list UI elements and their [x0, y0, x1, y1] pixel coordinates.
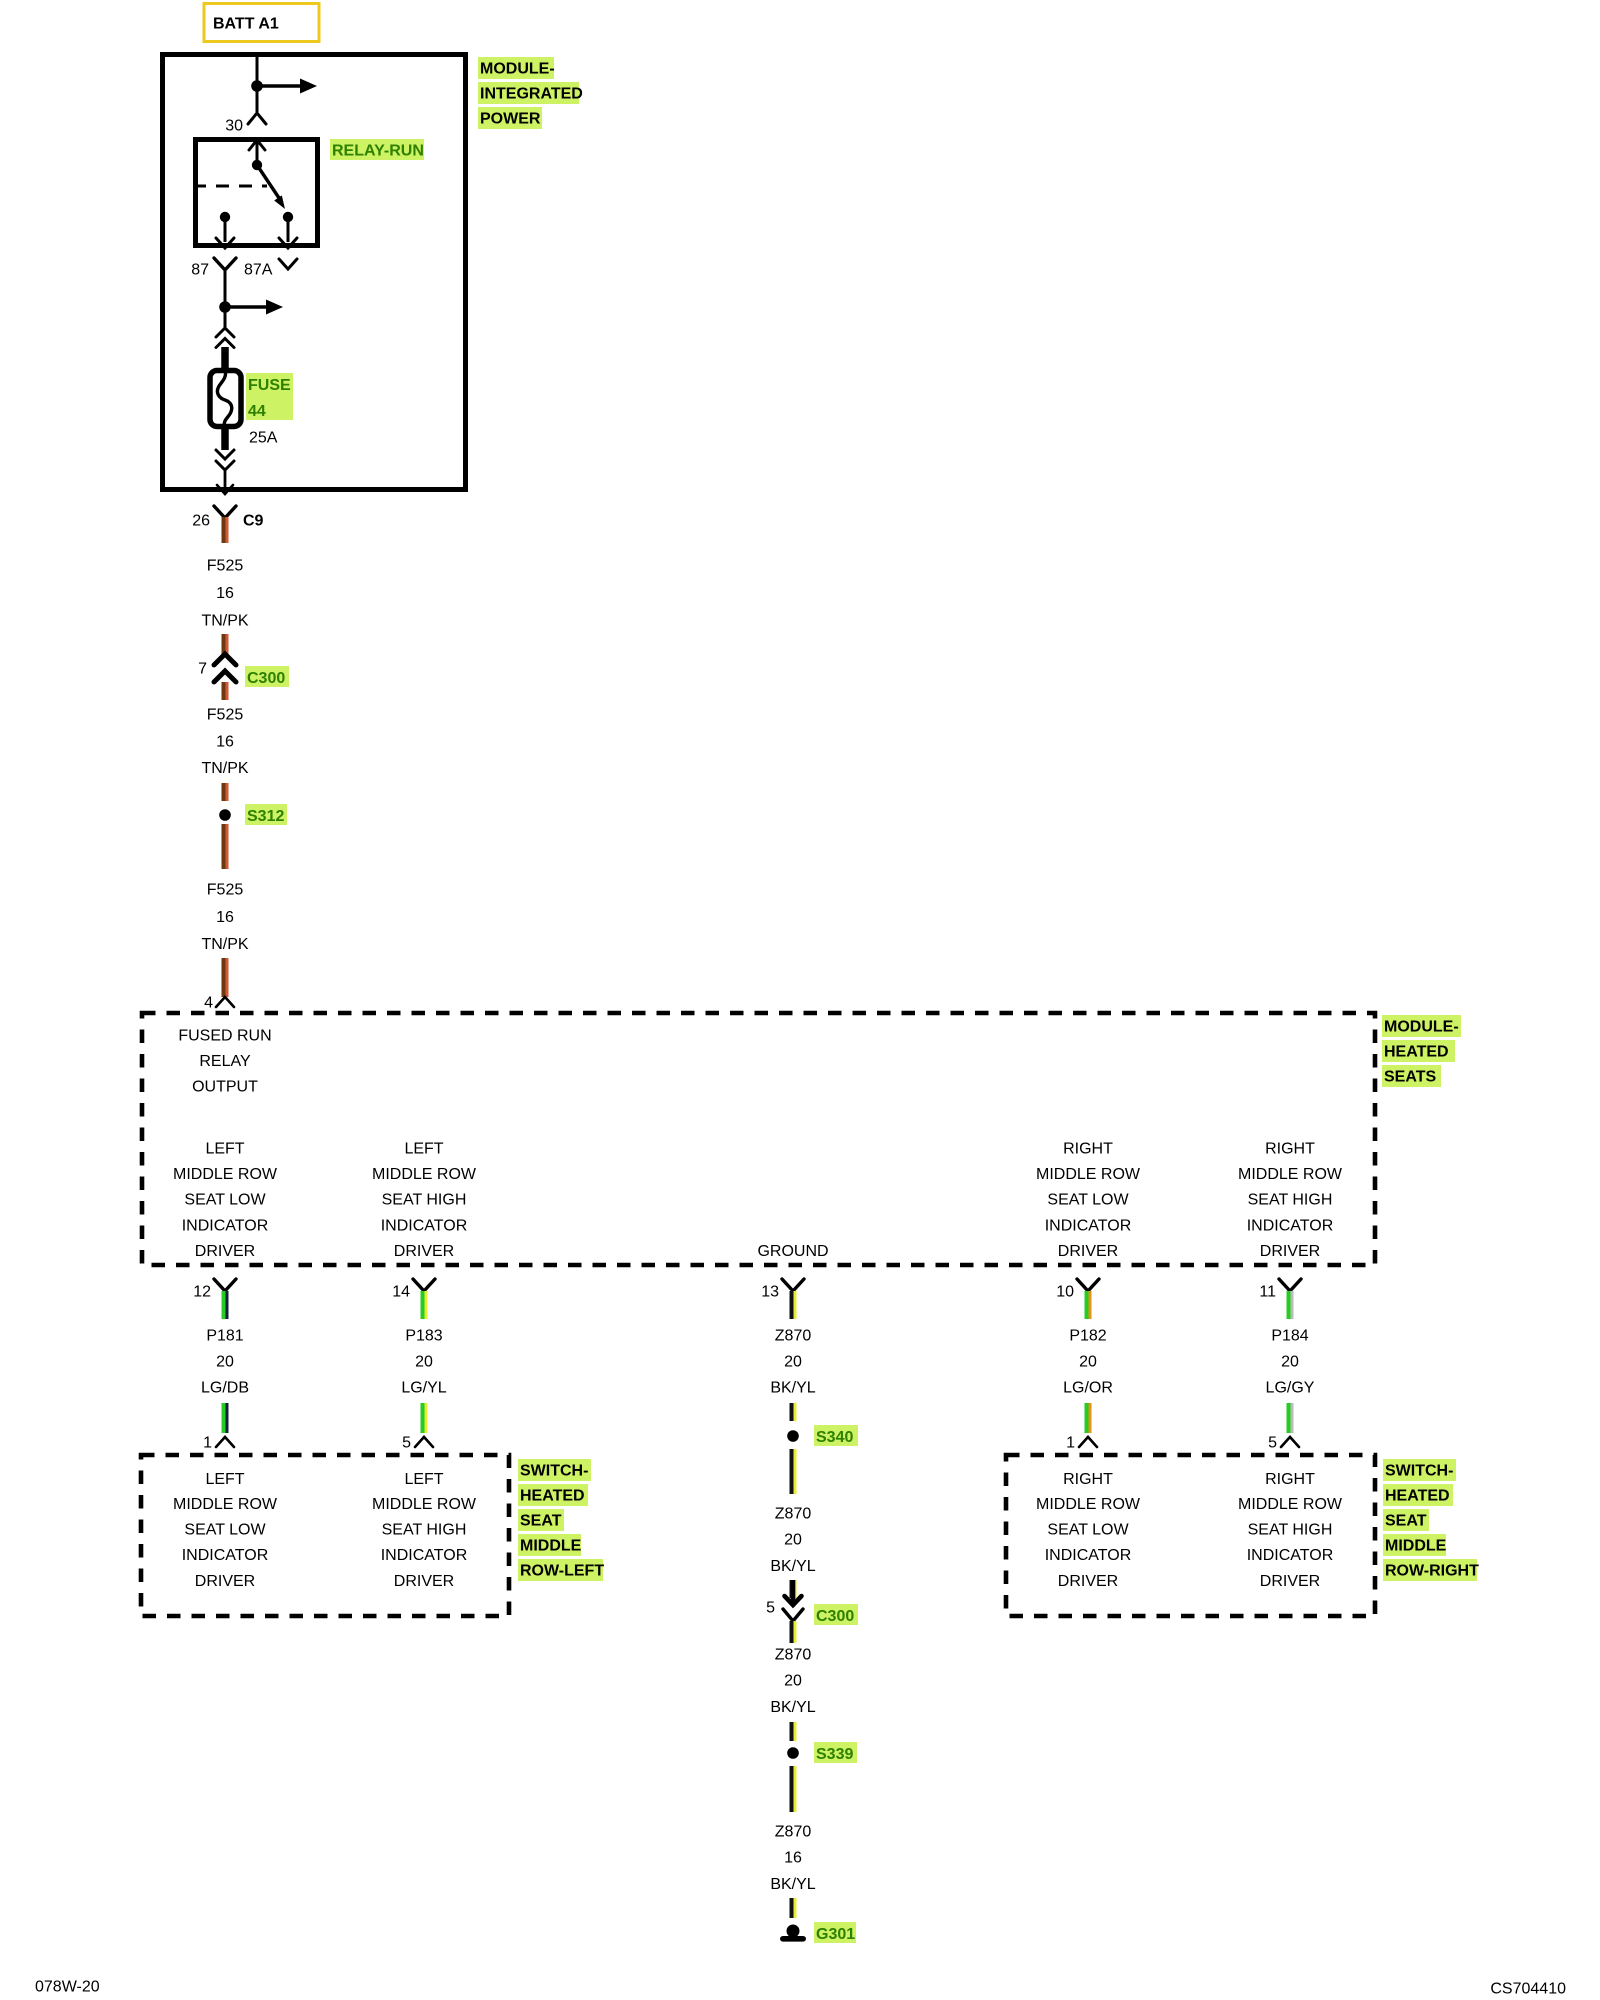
svg-text:20: 20 — [1079, 1354, 1097, 1371]
svg-text:12: 12 — [193, 1284, 211, 1301]
svg-text:13: 13 — [761, 1284, 779, 1301]
fuse output double chevron — [216, 450, 234, 470]
wire Z870 BK/YL segment above S339 — [790, 1722, 797, 1741]
svg-text:LG/GY: LG/GY — [1266, 1380, 1315, 1397]
svg-text:SEAT LOW: SEAT LOW — [1047, 1522, 1129, 1539]
svg-text:F525: F525 — [207, 707, 244, 724]
svg-text:SEAT LOW: SEAT LOW — [184, 1522, 266, 1539]
svg-text:FUSE: FUSE — [248, 377, 291, 394]
label G301 — [814, 1922, 856, 1943]
svg-text:TN/PK: TN/PK — [201, 760, 248, 777]
svg-text:GROUND: GROUND — [757, 1243, 828, 1260]
svg-text:RIGHT: RIGHT — [1063, 1141, 1113, 1158]
wire Z870 BK/YL segment to ground — [790, 1898, 797, 1918]
svg-text:SEAT HIGH: SEAT HIGH — [1248, 1192, 1333, 1209]
svg-text:C300: C300 — [247, 670, 285, 687]
connector pin 10 with wire P182 — [1056, 1279, 1099, 1319]
connector pin 11 with wire P184 — [1259, 1279, 1301, 1319]
connector C300 pin 5 male arrow — [785, 1580, 802, 1605]
svg-text:SEAT: SEAT — [1385, 1513, 1427, 1530]
svg-text:20: 20 — [216, 1354, 234, 1371]
svg-text:LEFT: LEFT — [205, 1471, 244, 1488]
wire down to relay pin 30 — [256, 86, 259, 112]
svg-text:FUSED RUN: FUSED RUN — [178, 1028, 271, 1045]
switch-heated seat middle row-left dashed box — [141, 1455, 509, 1616]
svg-text:MIDDLE: MIDDLE — [1385, 1538, 1447, 1555]
connector C300 pin 5 female Y — [766, 1600, 803, 1644]
svg-text:RELAY: RELAY — [199, 1053, 251, 1070]
splice S312 — [219, 804, 287, 825]
svg-text:87: 87 — [191, 262, 209, 279]
svg-text:S339: S339 — [816, 1746, 853, 1763]
svg-text:MIDDLE ROW: MIDDLE ROW — [1036, 1496, 1141, 1513]
wire F525 TN/PK segment 2 — [222, 634, 229, 654]
label C300 upper — [245, 666, 289, 687]
junction dot battery feed — [251, 80, 263, 92]
svg-text:SEAT: SEAT — [520, 1513, 562, 1530]
svg-text:SEAT HIGH: SEAT HIGH — [382, 1522, 467, 1539]
module output arrowhead — [217, 485, 233, 494]
svg-text:11: 11 — [1259, 1284, 1276, 1301]
svg-text:25A: 25A — [249, 430, 278, 447]
fuse 44 box outline — [210, 371, 241, 427]
splice S339 — [787, 1742, 857, 1763]
svg-text:20: 20 — [784, 1532, 802, 1549]
module-heated seats dashed box outline — [142, 1013, 1375, 1265]
label MODULE-HEATED SEATS — [1382, 1015, 1461, 1087]
svg-text:MIDDLE ROW: MIDDLE ROW — [1036, 1166, 1141, 1183]
svg-text:16: 16 — [216, 585, 234, 602]
svg-text:Z870: Z870 — [775, 1647, 812, 1664]
module heated seats pin 4 chevron — [204, 995, 234, 1012]
svg-text:P183: P183 — [405, 1328, 442, 1345]
switch-heated seat middle row-right dashed box — [1006, 1455, 1375, 1616]
wire F525 TN/PK segment 1 — [222, 517, 229, 543]
branch arrow to other circuits top — [257, 79, 317, 94]
svg-text:26: 26 — [192, 513, 210, 530]
wire F525 TN/PK segment 5 — [222, 958, 229, 997]
ground symbol G301 — [780, 1925, 806, 1942]
svg-text:OUTPUT: OUTPUT — [192, 1079, 258, 1096]
svg-text:F525: F525 — [207, 882, 244, 899]
relay pin 87 contact dot — [216, 212, 234, 248]
svg-text:HEATED: HEATED — [1384, 1044, 1449, 1061]
svg-text:DRIVER: DRIVER — [1260, 1573, 1320, 1590]
relay coil dashed divider — [193, 185, 267, 188]
junction dot fused output branch — [219, 301, 231, 313]
svg-text:1: 1 — [1066, 1435, 1075, 1452]
relay RELAY-RUN box outline — [196, 140, 318, 246]
svg-text:INDICATOR: INDICATOR — [381, 1217, 468, 1234]
svg-text:16: 16 — [784, 1850, 802, 1867]
label C300 lower — [814, 1604, 858, 1625]
svg-text:P184: P184 — [1271, 1328, 1308, 1345]
svg-text:S340: S340 — [816, 1429, 853, 1446]
wire battery feed into module — [256, 57, 259, 86]
thick wire into fuse — [221, 347, 229, 370]
svg-text:HEATED: HEATED — [1385, 1488, 1450, 1505]
thick wire out of fuse — [221, 427, 229, 450]
wire F525 TN/PK segment 3 — [222, 783, 229, 801]
svg-text:20: 20 — [784, 1673, 802, 1690]
connector pin 14 with wire P183 — [392, 1279, 435, 1319]
battery feed label box BATT A1 — [204, 4, 319, 42]
svg-text:44: 44 — [248, 403, 266, 420]
svg-text:P181: P181 — [206, 1328, 243, 1345]
svg-text:INDICATOR: INDICATOR — [1247, 1547, 1334, 1564]
branch arrow to other circuits mid — [225, 300, 283, 315]
wire 87 down to branch dot — [224, 270, 227, 307]
wire to module output pin 26 — [224, 470, 227, 490]
connector pin 13 with wire Z870 — [761, 1279, 804, 1319]
svg-text:SEATS: SEATS — [1384, 1069, 1436, 1086]
label MODULE-INTEGRATED POWER — [478, 57, 583, 129]
svg-text:ROW-RIGHT: ROW-RIGHT — [1385, 1563, 1479, 1580]
wire Z870 BK/YL segment above S340 — [790, 1403, 797, 1421]
switch right pin 5 wire and chevron — [1268, 1403, 1299, 1452]
relay switch blade arm — [257, 165, 279, 198]
svg-text:INDICATOR: INDICATOR — [381, 1547, 468, 1564]
svg-text:16: 16 — [216, 734, 234, 751]
svg-text:LG/YL: LG/YL — [401, 1380, 446, 1397]
svg-text:C9: C9 — [243, 513, 264, 530]
svg-text:DRIVER: DRIVER — [1058, 1573, 1118, 1590]
svg-text:LG/DB: LG/DB — [201, 1380, 249, 1397]
svg-text:MIDDLE ROW: MIDDLE ROW — [1238, 1496, 1343, 1513]
svg-text:INDICATOR: INDICATOR — [1247, 1217, 1334, 1234]
svg-text:INDICATOR: INDICATOR — [182, 1547, 269, 1564]
svg-text:5: 5 — [1268, 1435, 1277, 1452]
svg-text:DRIVER: DRIVER — [1058, 1243, 1118, 1260]
svg-text:BK/YL: BK/YL — [770, 1380, 815, 1397]
svg-text:DRIVER: DRIVER — [195, 1243, 255, 1260]
svg-text:Z870: Z870 — [775, 1328, 812, 1345]
svg-text:MIDDLE ROW: MIDDLE ROW — [372, 1166, 477, 1183]
svg-text:Z870: Z870 — [775, 1506, 812, 1523]
svg-text:078W-20: 078W-20 — [35, 1979, 100, 1996]
svg-text:BK/YL: BK/YL — [770, 1699, 815, 1716]
svg-text:DRIVER: DRIVER — [1260, 1243, 1320, 1260]
svg-text:BATT A1: BATT A1 — [213, 16, 279, 33]
switch left pin 1 wire and chevron — [203, 1403, 234, 1452]
svg-text:LEFT: LEFT — [404, 1141, 443, 1158]
module-integrated power box outline — [163, 55, 466, 490]
svg-text:10: 10 — [1056, 1284, 1074, 1301]
svg-text:SEAT HIGH: SEAT HIGH — [1248, 1522, 1333, 1539]
svg-text:Z870: Z870 — [775, 1824, 812, 1841]
relay pin 87A contact dot — [279, 212, 297, 248]
fuse element squiggle — [217, 371, 231, 427]
svg-text:LG/OR: LG/OR — [1063, 1380, 1113, 1397]
svg-text:MODULE-: MODULE- — [1384, 1019, 1459, 1036]
pin 87 label and connector — [191, 258, 236, 279]
relay common dot — [252, 160, 262, 170]
label SWITCH-HEATED SEAT MIDDLE ROW-LEFT — [518, 1459, 604, 1581]
svg-text:SWITCH-: SWITCH- — [1385, 1463, 1453, 1480]
wire Z870 BK/YL segment below S339 — [790, 1766, 797, 1812]
fuse input double chevron — [216, 328, 234, 348]
svg-text:DRIVER: DRIVER — [394, 1573, 454, 1590]
svg-text:MODULE-: MODULE- — [480, 61, 555, 78]
svg-text:SEAT HIGH: SEAT HIGH — [382, 1192, 467, 1209]
connector C300 pin 7 double chevron — [214, 654, 236, 700]
svg-text:5: 5 — [766, 1600, 775, 1617]
svg-text:HEATED: HEATED — [520, 1488, 585, 1505]
svg-text:TN/PK: TN/PK — [201, 936, 248, 953]
svg-text:POWER: POWER — [480, 111, 541, 128]
svg-text:MIDDLE ROW: MIDDLE ROW — [173, 1496, 278, 1513]
svg-text:5: 5 — [402, 1435, 411, 1452]
svg-text:20: 20 — [1281, 1354, 1299, 1371]
svg-text:30: 30 — [225, 118, 243, 135]
svg-text:87A: 87A — [244, 262, 273, 279]
svg-text:MIDDLE ROW: MIDDLE ROW — [372, 1496, 477, 1513]
svg-text:C300: C300 — [816, 1608, 854, 1625]
svg-text:MIDDLE ROW: MIDDLE ROW — [173, 1166, 278, 1183]
svg-text:INDICATOR: INDICATOR — [1045, 1217, 1132, 1234]
pin 30 terminal chevron — [225, 113, 266, 135]
svg-text:LEFT: LEFT — [205, 1141, 244, 1158]
svg-text:INDICATOR: INDICATOR — [182, 1217, 269, 1234]
svg-text:TN/PK: TN/PK — [201, 613, 248, 630]
label FUSE 44 — [246, 373, 293, 420]
svg-text:INDICATOR: INDICATOR — [1045, 1547, 1132, 1564]
connector C9 pin 26 — [192, 506, 263, 530]
svg-text:F525: F525 — [207, 558, 244, 575]
switch left pin 5 wire and chevron — [402, 1403, 433, 1452]
svg-text:INTEGRATED: INTEGRATED — [480, 86, 583, 103]
svg-text:SWITCH-: SWITCH- — [520, 1463, 588, 1480]
svg-text:14: 14 — [392, 1284, 410, 1301]
svg-text:BK/YL: BK/YL — [770, 1558, 815, 1575]
svg-text:LEFT: LEFT — [404, 1471, 443, 1488]
svg-text:RIGHT: RIGHT — [1265, 1471, 1315, 1488]
svg-text:SEAT LOW: SEAT LOW — [1047, 1192, 1129, 1209]
svg-text:CS704410: CS704410 — [1490, 1981, 1566, 1998]
svg-text:RIGHT: RIGHT — [1265, 1141, 1315, 1158]
svg-text:DRIVER: DRIVER — [394, 1243, 454, 1260]
svg-text:G301: G301 — [816, 1926, 855, 1943]
wire down to fuse connector — [224, 307, 227, 328]
svg-text:16: 16 — [216, 909, 234, 926]
svg-text:S312: S312 — [247, 808, 284, 825]
pin 87A label and connector — [244, 259, 297, 279]
svg-text:MIDDLE: MIDDLE — [520, 1538, 582, 1555]
wire Z870 BK/YL segment below S340 — [790, 1449, 797, 1494]
svg-text:P182: P182 — [1069, 1328, 1106, 1345]
splice S340 — [787, 1425, 858, 1446]
svg-text:1: 1 — [203, 1435, 212, 1452]
wire F525 TN/PK segment 4 — [222, 824, 229, 869]
switch right pin 1 wire and chevron — [1066, 1403, 1097, 1452]
svg-text:RIGHT: RIGHT — [1063, 1471, 1113, 1488]
svg-text:BK/YL: BK/YL — [770, 1876, 815, 1893]
svg-text:RELAY-RUN: RELAY-RUN — [332, 143, 424, 160]
svg-text:ROW-LEFT: ROW-LEFT — [520, 1563, 604, 1580]
connector pin 12 with wire P181 — [193, 1279, 236, 1319]
label SWITCH-HEATED SEAT MIDDLE ROW-RIGHT — [1383, 1459, 1479, 1581]
svg-text:20: 20 — [784, 1354, 802, 1371]
svg-text:4: 4 — [204, 995, 213, 1012]
svg-text:DRIVER: DRIVER — [195, 1573, 255, 1590]
svg-text:20: 20 — [415, 1354, 433, 1371]
svg-text:SEAT LOW: SEAT LOW — [184, 1192, 266, 1209]
relay coil pin arrow up — [249, 140, 265, 163]
svg-text:MIDDLE ROW: MIDDLE ROW — [1238, 1166, 1343, 1183]
svg-text:7: 7 — [198, 661, 207, 678]
label RELAY-RUN — [330, 139, 424, 160]
